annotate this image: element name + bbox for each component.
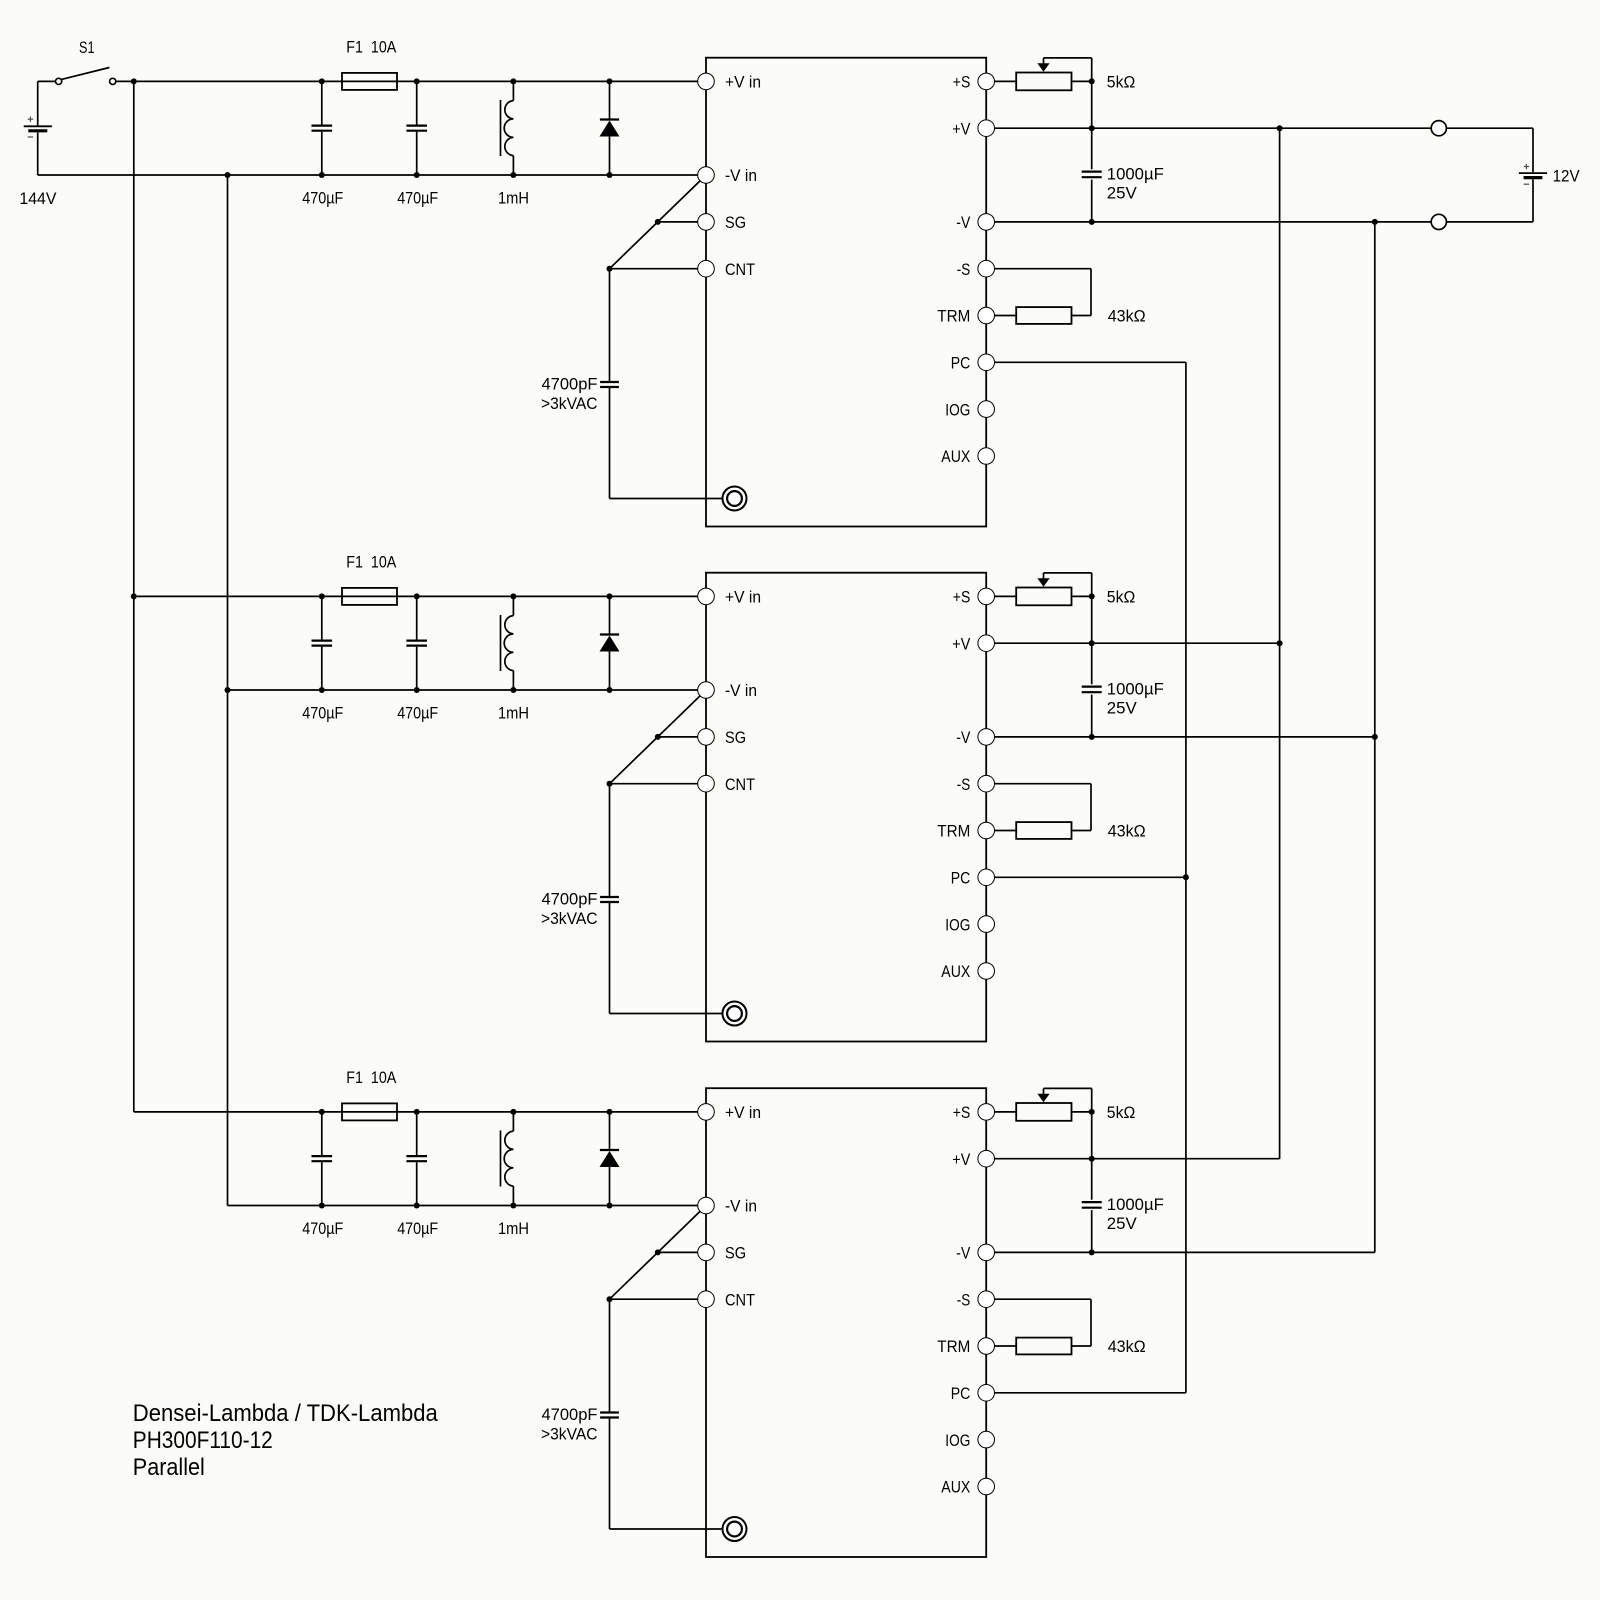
svg-text:IOG: IOG (945, 400, 970, 419)
svg-text:4700pF: 4700pF (542, 1405, 598, 1424)
wire -V input: battery BT1 to -V in pin of PSU1 (38, 172, 698, 178)
output terminal - (circle) (1431, 214, 1446, 229)
svg-text:+S: +S (953, 73, 971, 92)
power supply module PSU1 PH300F110-12 box (706, 58, 986, 527)
svg-text:+S: +S (953, 1103, 971, 1122)
capacitor C2 470µF (PSU2) (397, 593, 438, 722)
potentiometer 5kΩ (PSU3) (1016, 1088, 1135, 1122)
wire -V input bus tap to -V in pin of PSU2 (228, 689, 698, 691)
wire +V output to terminal (PSU1) (995, 125, 1432, 131)
svg-text:+V in: +V in (725, 1103, 761, 1122)
wire diagonal -V in to CNT node (PSU1) (610, 181, 700, 269)
svg-text:144V: 144V (19, 189, 57, 208)
capacitor C1 470µF (PSU2) (302, 593, 343, 722)
pin SG (PSU1) (698, 213, 746, 232)
svg-text:CNT: CNT (725, 775, 755, 794)
svg-text:SG: SG (725, 213, 746, 232)
pin +V in (PSU1) (698, 73, 761, 92)
pin PC (PSU1) (951, 354, 995, 373)
resistor 43kΩ (PSU2) (995, 822, 1146, 841)
svg-text:-V: -V (956, 1244, 971, 1263)
svg-text:S1: S1 (79, 38, 95, 57)
pin CNT (PSU2) (698, 775, 755, 794)
svg-text:470µF: 470µF (302, 703, 343, 722)
svg-text:1000µF: 1000µF (1107, 164, 1164, 183)
chassis/case terminal (PSU2) (723, 1002, 747, 1026)
pin SG (PSU3) (698, 1244, 746, 1263)
wire CNT tap (PSU1) (607, 266, 698, 272)
svg-text:-S: -S (957, 1290, 971, 1309)
wire +S to potentiometer (PSU2) (995, 595, 1017, 597)
svg-text:IOG: IOG (945, 1431, 970, 1450)
pin -V in (PSU3) (698, 1197, 757, 1216)
pin -V (PSU3) (956, 1244, 994, 1263)
wire +S to potentiometer (PSU1) (995, 80, 1017, 82)
svg-text:CNT: CNT (725, 1290, 755, 1309)
svg-text:IOG: IOG (945, 915, 970, 934)
output terminal + (circle) (1431, 121, 1446, 136)
fuse F1 10A (PSU1) (342, 37, 397, 90)
pin -V in (PSU1) (698, 166, 757, 185)
-V output bus (1374, 222, 1376, 1253)
svg-text:43kΩ: 43kΩ (1108, 307, 1146, 326)
capacitor C2 470µF (PSU3) (397, 1109, 438, 1238)
svg-text:470µF: 470µF (302, 1219, 343, 1238)
pin PC (PSU3) (951, 1384, 995, 1403)
svg-text:>3kVAC: >3kVAC (541, 394, 598, 413)
svg-text:5kΩ: 5kΩ (1107, 1103, 1136, 1122)
svg-text:Densei-Lambda / TDK-Lambda: Densei-Lambda / TDK-Lambda (133, 1400, 439, 1427)
wire -S loop (PSU2) (995, 784, 1092, 831)
pin +S (PSU3) (953, 1103, 995, 1122)
potentiometer 5kΩ (PSU2) (1016, 573, 1135, 607)
wire CNT tap (PSU3) (607, 1296, 698, 1302)
pin -S (PSU1) (957, 260, 995, 279)
svg-text:F1 10A: F1 10A (346, 552, 397, 571)
-V input distribution bus (225, 175, 231, 1206)
pin CNT (PSU1) (698, 260, 755, 279)
wire -S loop (PSU3) (995, 1299, 1092, 1346)
capacitor C4 1000µF 25V (PSU2) (1082, 596, 1164, 740)
resistor 43kΩ (PSU1) (995, 307, 1146, 326)
svg-text:470µF: 470µF (397, 188, 438, 207)
svg-text:+S: +S (953, 588, 971, 607)
chassis/case terminal (PSU3) (723, 1517, 747, 1541)
pin IOG (PSU2) (945, 915, 994, 934)
svg-text:-S: -S (957, 775, 971, 794)
svg-text:PC: PC (951, 1384, 971, 1403)
capacitor C1 470µF (PSU3) (302, 1109, 343, 1238)
svg-text:>3kVAC: >3kVAC (541, 1424, 598, 1443)
svg-text:F1 10A: F1 10A (346, 37, 397, 56)
wire SG tap on diagonal (PSU3) (658, 1251, 698, 1253)
svg-text:1mH: 1mH (498, 1219, 529, 1238)
wire +V output to +V bus corner (PSU3) (995, 1158, 1280, 1160)
pin -V (PSU2) (956, 728, 994, 747)
pin TRM (PSU3) (937, 1337, 994, 1356)
svg-text:1mH: 1mH (498, 703, 529, 722)
inductor L1 1mH (PSU3) (498, 1109, 529, 1238)
svg-text:4700pF: 4700pF (542, 374, 598, 393)
+V input distribution bus (131, 81, 137, 1112)
pin +V in (PSU2) (698, 588, 761, 607)
wire CNT tap (PSU2) (607, 781, 698, 787)
pin +V in (PSU3) (698, 1103, 761, 1122)
svg-text:TRM: TRM (937, 1337, 970, 1356)
power supply module PSU3 PH300F110-12 box (706, 1088, 986, 1557)
svg-text:-V in: -V in (725, 166, 757, 185)
wire +V input: switch to +V in pin of PSU1 (116, 78, 698, 84)
wire -S loop (PSU1) (995, 269, 1092, 316)
svg-text:TRM: TRM (937, 307, 970, 326)
switch S1 (56, 38, 116, 85)
pin TRM (PSU1) (937, 307, 994, 326)
svg-text:-V: -V (956, 213, 971, 232)
capacitor C3 4700pF >3kVAC (PSU3) (541, 1299, 619, 1529)
inductor L1 1mH (PSU2) (498, 593, 529, 722)
svg-text:CNT: CNT (725, 260, 755, 279)
pin -V (PSU1) (956, 213, 994, 232)
svg-text:25V: 25V (1107, 699, 1138, 718)
capacitor C4 1000µF 25V (PSU3) (1082, 1112, 1164, 1256)
diode D1 (PSU3) (600, 1109, 620, 1209)
diode D1 (PSU1) (600, 78, 620, 178)
wire +V input bus corner to +V in pin of PSU3 (134, 1111, 698, 1113)
+V output bus (1279, 128, 1281, 1159)
svg-text:43kΩ: 43kΩ (1108, 822, 1146, 841)
svg-text:+V in: +V in (725, 588, 761, 607)
pin -S (PSU3) (957, 1290, 995, 1309)
svg-text:470µF: 470µF (397, 1219, 438, 1238)
pin CNT (PSU3) (698, 1290, 755, 1309)
PC current-share bus (1185, 362, 1187, 1393)
pin -S (PSU2) (957, 775, 995, 794)
capacitor C1 470µF (PSU1) (302, 78, 343, 207)
wire PC to share bus (PSU1) (995, 361, 1186, 363)
svg-text:+V in: +V in (725, 73, 761, 92)
svg-text:1000µF: 1000µF (1107, 1195, 1164, 1214)
svg-text:25V: 25V (1107, 1214, 1138, 1233)
wire -V input bus corner to -V in pin of PSU3 (228, 1205, 698, 1207)
wire -V output to terminal (PSU1) (995, 219, 1432, 225)
svg-text:PH300F110-12: PH300F110-12 (133, 1427, 273, 1454)
chassis/case terminal (PSU1) (723, 487, 747, 511)
battery BT1 144V (19, 81, 57, 207)
svg-text:SG: SG (725, 728, 746, 747)
wire PC to share bus tap (PSU2) (995, 874, 1189, 880)
pin AUX (PSU1) (941, 447, 994, 466)
svg-text:-V: -V (956, 728, 971, 747)
capacitor C4 1000µF 25V (PSU1) (1082, 81, 1164, 225)
svg-text:-V in: -V in (725, 681, 757, 700)
power supply module PSU2 PH300F110-12 box (706, 573, 986, 1042)
wire battery + to switch (38, 80, 56, 82)
svg-text:-S: -S (957, 260, 971, 279)
capacitor C3 4700pF >3kVAC (PSU2) (541, 784, 619, 1014)
svg-text:AUX: AUX (941, 447, 970, 466)
svg-text:5kΩ: 5kΩ (1107, 588, 1136, 607)
pin AUX (PSU2) (941, 962, 994, 981)
wire diagonal -V in to CNT node (PSU2) (610, 696, 700, 784)
svg-text:F1 10A: F1 10A (346, 1068, 397, 1087)
wire +V output to +V bus (PSU2) (995, 640, 1283, 646)
svg-text:5kΩ: 5kΩ (1107, 73, 1136, 92)
wire diagonal -V in to CNT node (PSU3) (610, 1212, 700, 1300)
wire to chassis terminal (PSU1) (610, 498, 723, 500)
pin PC (PSU2) (951, 869, 995, 888)
svg-text:25V: 25V (1107, 184, 1138, 203)
pin IOG (PSU1) (945, 400, 994, 419)
fuse F1 10A (PSU3) (342, 1068, 397, 1121)
svg-text:AUX: AUX (941, 1478, 970, 1497)
svg-text:1mH: 1mH (498, 188, 529, 207)
svg-text:12V: 12V (1553, 167, 1581, 186)
pin +V (PSU2) (952, 634, 994, 653)
pin -V in (PSU2) (698, 681, 757, 700)
svg-text:PC: PC (951, 354, 971, 373)
wire terminal - to battery BT2 (1446, 221, 1533, 223)
battery BT2 12V (1519, 128, 1580, 222)
potentiometer 5kΩ (PSU1) (1016, 58, 1135, 92)
svg-text:470µF: 470µF (302, 188, 343, 207)
fuse F1 10A (PSU2) (342, 552, 397, 605)
svg-text:1000µF: 1000µF (1107, 679, 1164, 698)
wire PC to share bus corner (PSU3) (995, 1392, 1186, 1394)
svg-text:>3kVAC: >3kVAC (541, 909, 598, 928)
pin TRM (PSU2) (937, 822, 994, 841)
svg-text:43kΩ: 43kΩ (1108, 1337, 1146, 1356)
capacitor C2 470µF (PSU1) (397, 78, 438, 207)
diode D1 (PSU2) (600, 593, 620, 693)
svg-text:-V in: -V in (725, 1197, 757, 1216)
svg-text:470µF: 470µF (397, 703, 438, 722)
pin IOG (PSU3) (945, 1431, 994, 1450)
svg-text:AUX: AUX (941, 962, 970, 981)
wire to chassis terminal (PSU3) (610, 1528, 723, 1530)
pin +V (PSU1) (952, 119, 994, 138)
svg-text:SG: SG (725, 1244, 746, 1263)
pin +S (PSU1) (953, 73, 995, 92)
inductor L1 1mH (PSU1) (498, 78, 529, 207)
capacitor C3 4700pF >3kVAC (PSU1) (541, 269, 619, 499)
pin SG (PSU2) (698, 728, 746, 747)
wire -V output to -V bus (PSU2) (995, 734, 1378, 740)
wire +V input bus tap to +V in pin of PSU2 (134, 595, 698, 597)
svg-text:+V: +V (952, 1150, 971, 1169)
wire SG tap on diagonal (PSU2) (658, 736, 698, 738)
svg-text:4700pF: 4700pF (542, 889, 598, 908)
resistor 43kΩ (PSU3) (995, 1337, 1146, 1356)
pin +V (PSU3) (952, 1150, 994, 1169)
wire +S to potentiometer (PSU3) (995, 1111, 1017, 1113)
wire -V output to -V bus corner (PSU3) (995, 1251, 1375, 1253)
wire terminal + to battery BT2 (1446, 127, 1533, 129)
svg-text:Parallel: Parallel (133, 1454, 205, 1481)
title text (133, 1400, 439, 1481)
wire to chassis terminal (PSU2) (610, 1013, 723, 1015)
svg-text:PC: PC (951, 869, 971, 888)
wire SG tap on diagonal (PSU1) (658, 221, 698, 223)
svg-text:+V: +V (952, 119, 971, 138)
svg-text:+V: +V (952, 634, 971, 653)
pin +S (PSU2) (953, 588, 995, 607)
pin AUX (PSU3) (941, 1478, 994, 1497)
svg-text:TRM: TRM (937, 822, 970, 841)
